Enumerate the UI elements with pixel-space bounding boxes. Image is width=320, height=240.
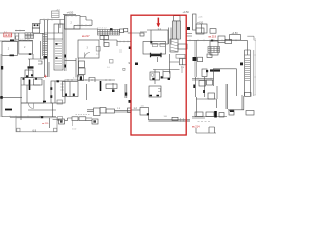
double vline right of room: [169, 28, 172, 45]
step boxes end of strip: [120, 29, 124, 33]
stairs hatch band mid: [170, 39, 178, 52]
wall y14.5: [63, 14, 76, 16]
long wall y80 with ticks: [65, 79, 116, 81]
stair-step small rooms to bottom: [86, 84, 88, 100]
black marks shaft: [56, 44, 58, 58]
wall y40.3: [187, 39, 241, 41]
svg-text:Э: Э: [128, 62, 130, 65]
bottom interior walls in red box: [149, 115, 191, 121]
dark dot on strip: [110, 28, 113, 30]
far right L outline: [228, 95, 244, 110]
scattered small fixtures middle unit right part: [110, 60, 114, 64]
red label kv216: [4, 33, 12, 37]
box lower left in red: [140, 108, 149, 116]
svg-text:+4.50: +4.50: [232, 32, 239, 35]
middle bottom balcony: [59, 119, 65, 124]
top right box: [230, 35, 241, 41]
right margin dimension line: [254, 38, 256, 95]
hatched box: [208, 47, 220, 53]
narrow vertical box: [193, 14, 197, 30]
rooms below wall y80: [63, 82, 79, 97]
top outline line: [40, 20, 65, 29]
chimney box top-left: [52, 11, 60, 18]
corridor verticals: [76, 58, 78, 77]
tall band x44-48: [43, 20, 48, 77]
small room lower: [149, 86, 161, 97]
svg-text:+4.50: +4.50: [67, 11, 74, 15]
bottom right steps: [196, 127, 216, 133]
svg-text:кв.214: кв.214: [192, 125, 200, 129]
svg-text:2.1 1.4: 2.1 1.4: [73, 78, 80, 80]
top box: [196, 24, 207, 33]
svg-text:1.2 3.3 1.5: 1.2 3.3 1.5: [20, 39, 30, 41]
room A2: [19, 40, 33, 54]
black box: [193, 57, 197, 61]
svg-text:6.9: 6.9: [33, 128, 37, 132]
svg-text:кв.215: кв.215: [42, 123, 49, 125]
walls mid lower: [153, 54, 180, 84]
dark band: [210, 69, 220, 71]
door arc: [85, 53, 91, 59]
bottom right cluster: [192, 117, 227, 119]
bottom-left black chunk: [5, 109, 12, 111]
door arc bathroom: [29, 104, 34, 109]
ladder hatch in band: [43, 35, 48, 55]
mid room in red box: [143, 42, 166, 55]
left building edge: [1, 54, 2, 117]
wall y116 bottom of unit: [2, 117, 56, 118]
right unit interior mid: [192, 79, 214, 81]
wall y33 left: [0, 32, 25, 34]
svg-text:кв.217: кв.217: [82, 34, 90, 38]
boxes top row: [196, 28, 204, 34]
wall y97 left: [0, 96, 22, 98]
top room in red box: [151, 30, 168, 44]
dark barbell element: [151, 54, 162, 56]
vent strip B: [98, 30, 120, 36]
wall y110: [28, 109, 56, 111]
red cross marker: [44, 75, 47, 78]
small box bottom: [202, 69, 207, 77]
svg-text:+4.50: +4.50: [183, 11, 190, 14]
wall y29: [65, 25, 99, 29]
stair shaft top right: [173, 21, 181, 39]
black block right edge: [187, 27, 190, 30]
black marks on left wall: [64, 55, 66, 68]
room A1: [2, 42, 18, 56]
wall left of room: [131, 30, 151, 33]
svg-text:+4.50: +4.50: [197, 22, 204, 25]
balcony left: [16, 118, 57, 132]
wall y110 from red edge: [131, 109, 140, 111]
svg-text:кв.219: кв.219: [209, 34, 217, 38]
window bay boxes: [32, 24, 39, 29]
svg-text:2.0 1.5 1.2: 2.0 1.5 1.2: [97, 27, 107, 29]
top outline step: [74, 17, 92, 26]
small fixtures cluster: [79, 61, 85, 68]
black square left: [135, 63, 138, 66]
cluster bottom of mid: [150, 72, 160, 80]
left boundary wall: [65, 15, 67, 72]
room mid: [78, 40, 99, 58]
right box inside red: [180, 59, 186, 65]
wall y60.5: [65, 60, 77, 62]
line y33 to red edge: [128, 32, 131, 34]
wall y41 with jambs: [0, 33, 32, 41]
walls below strip: [100, 36, 131, 47]
interior walls mid-left: [28, 41, 45, 78]
lines to right edge: [241, 40, 248, 55]
vertical wall x196: [195, 40, 197, 77]
black balcony door: [1, 66, 3, 70]
right stair area: [245, 50, 251, 96]
svg-text:кв.216: кв.216: [5, 34, 13, 37]
bathrooms cluster left-mid: [21, 77, 44, 79]
vent strip A: [25, 33, 34, 39]
shaft block left: [54, 24, 63, 70]
room right: [210, 41, 218, 55]
red selection rectangle: [131, 15, 186, 135]
room x51-65: [51, 81, 65, 103]
red arrow: [157, 18, 161, 28]
big top room: [65, 16, 81, 29]
